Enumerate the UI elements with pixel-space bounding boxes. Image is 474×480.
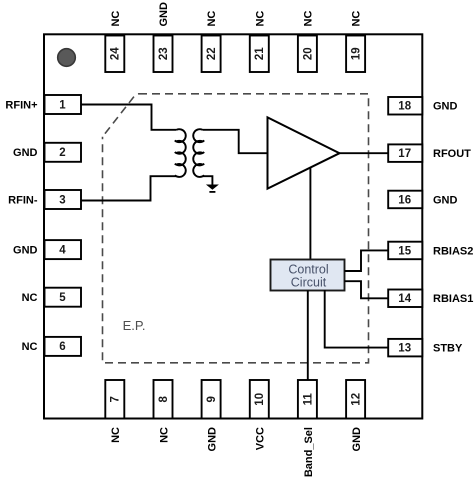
pin 15 RBIAS2: [388, 242, 422, 260]
svg-text:RFIN-: RFIN-: [8, 194, 38, 206]
wire control circuit to pin11 Band_Sel: [307, 291, 309, 381]
svg-text:13: 13: [398, 343, 411, 355]
pin 19 NC: [346, 36, 365, 73]
pin 3 RFIN-: [45, 190, 82, 209]
svg-text:Control: Control: [288, 263, 328, 277]
top pins: [105, 2, 365, 72]
svg-text:GND: GND: [433, 194, 458, 206]
pin 11 Band_Sel: [298, 380, 317, 419]
exposed pad chamfer (dashed diagonal): [103, 94, 140, 137]
svg-text:19: 19: [351, 47, 363, 60]
pin 4 GND: [45, 240, 82, 259]
svg-text:5: 5: [59, 292, 66, 304]
pin 16 GND: [388, 191, 422, 209]
svg-text:GND: GND: [13, 147, 38, 159]
pin 22 NC: [202, 36, 221, 73]
svg-text:9: 9: [206, 396, 218, 402]
svg-text:11: 11: [302, 393, 314, 406]
op-amp amplifier triangle: [268, 117, 340, 188]
pin 1 indicator dot: [58, 49, 76, 67]
svg-text:1: 1: [59, 99, 66, 111]
pin 18 GND: [388, 97, 422, 115]
pin 1 RFIN+: [45, 95, 82, 114]
right pins: [388, 97, 473, 356]
wire amplifier to control circuit: [309, 168, 311, 260]
left pins: [5, 95, 81, 356]
svg-text:STBY: STBY: [433, 343, 463, 355]
svg-text:6: 6: [59, 341, 65, 353]
pin 21 NC: [250, 36, 269, 73]
svg-text:NC: NC: [158, 427, 170, 443]
wire pin1 to transformer primary: [81, 105, 177, 130]
svg-text:4: 4: [59, 244, 66, 256]
pin 20 NC: [298, 36, 317, 73]
svg-text:NC: NC: [206, 11, 218, 27]
svg-text:14: 14: [398, 293, 411, 305]
svg-text:NC: NC: [110, 427, 122, 443]
svg-text:15: 15: [398, 245, 411, 257]
svg-text:GND: GND: [433, 101, 458, 113]
exposed pad E.P. dashed outline: [103, 94, 369, 363]
svg-text:GND: GND: [158, 2, 170, 27]
pin 8 NC: [154, 380, 173, 419]
pin 9 GND: [202, 380, 221, 419]
wire control circuit to pin13 STBY: [325, 290, 388, 348]
ground symbol: [206, 185, 219, 190]
svg-text:10: 10: [254, 393, 266, 406]
svg-text:NC: NC: [22, 341, 38, 353]
svg-text:Band_Sel: Band_Sel: [303, 427, 315, 477]
wire transformer primary to pin3: [81, 176, 177, 200]
svg-text:8: 8: [158, 396, 170, 403]
svg-text:16: 16: [398, 194, 411, 206]
pin 2 GND: [45, 143, 82, 162]
pin 13 STBY: [388, 339, 422, 357]
svg-text:23: 23: [158, 47, 170, 60]
svg-text:Circuit: Circuit: [291, 275, 327, 289]
IC package outline: [44, 34, 422, 418]
svg-text:E.P.: E.P.: [123, 318, 146, 333]
svg-text:RFIN+: RFIN+: [5, 99, 37, 111]
svg-text:NC: NC: [254, 11, 266, 27]
control circuit block: [271, 260, 345, 291]
svg-text:18: 18: [398, 101, 411, 113]
svg-text:GND: GND: [207, 427, 219, 452]
pin 24 NC: [105, 36, 124, 73]
svg-text:NC: NC: [110, 11, 122, 27]
svg-text:3: 3: [59, 194, 65, 206]
pin 17 RFOUT: [388, 144, 422, 162]
svg-text:RBIAS1: RBIAS1: [433, 293, 473, 305]
wire secondary top to amplifier input: [203, 130, 268, 153]
svg-text:RBIAS2: RBIAS2: [433, 245, 473, 257]
pin 12 GND: [346, 380, 365, 419]
transformer primary coil L1: [175, 129, 186, 177]
svg-text:20: 20: [302, 47, 314, 60]
svg-text:22: 22: [206, 47, 218, 60]
svg-text:21: 21: [254, 47, 266, 60]
pin 14 RBIAS1: [388, 290, 422, 308]
svg-text:2: 2: [59, 147, 65, 159]
svg-text:NC: NC: [351, 11, 363, 27]
pin 5 NC: [45, 288, 82, 307]
wire control circuit to pin14 RBIAS1: [345, 281, 389, 298]
pin 10 VCC: [250, 380, 269, 419]
pin 23 GND: [154, 36, 173, 73]
svg-text:7: 7: [110, 396, 122, 402]
svg-text:NC: NC: [22, 292, 38, 304]
wire secondary bottom to ground: [203, 176, 213, 184]
svg-text:GND: GND: [13, 244, 38, 256]
transformer secondary coil L2: [193, 129, 204, 177]
wire control circuit to pin15 RBIAS2: [345, 250, 389, 271]
pin 6 NC: [45, 337, 82, 356]
svg-text:RFOUT: RFOUT: [433, 148, 471, 160]
pin 7 NC: [105, 380, 124, 419]
svg-text:24: 24: [110, 47, 122, 60]
svg-text:12: 12: [351, 393, 363, 406]
wire amplifier output to pin17: [340, 152, 389, 154]
bottom pins: [105, 380, 365, 477]
svg-text:17: 17: [398, 148, 411, 160]
svg-text:GND: GND: [351, 427, 363, 452]
svg-text:VCC: VCC: [255, 427, 267, 450]
svg-text:NC: NC: [303, 11, 315, 27]
